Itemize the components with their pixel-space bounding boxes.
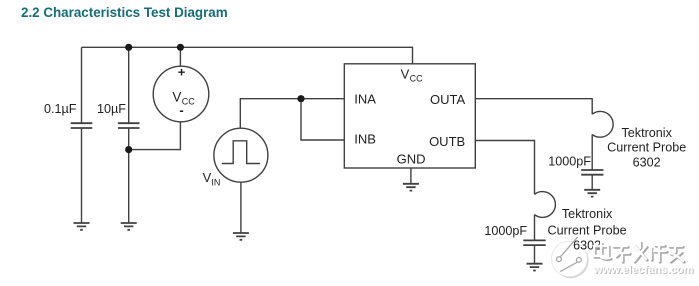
op-amp U1 IC body [344, 64, 475, 168]
capacitor C1 0.1uF plates [71, 123, 93, 128]
label: Tektronix Current Probe 6302 (probe 2) [548, 207, 627, 253]
voltage source VCC circle [153, 66, 209, 122]
ground: under 10uF [121, 223, 137, 230]
svg-text:+: + [178, 64, 186, 79]
ground: under VIN [233, 233, 249, 240]
pulse source VIN circle [214, 128, 268, 182]
wire: VCC source top lead [179, 47, 181, 66]
wire: VIN top lead to INA [240, 99, 344, 129]
svg-text:CC: CC [182, 96, 195, 106]
wire: VIN bottom lead to ground [240, 182, 242, 233]
capacitor C3 1000pF plates (probe 1) [581, 170, 603, 175]
wire: probe 2 to 1000pF cap 2 [534, 215, 536, 241]
svg-text:OUTB: OUTB [429, 134, 465, 149]
svg-text:www.elecfans.com: www.elecfans.com [593, 264, 694, 276]
wire: OUTA to current probe 1 [475, 99, 592, 115]
svg-text:2.2 Characteristics Test Diagr: 2.2 Characteristics Test Diagram [21, 5, 228, 20]
wire: 10uF branch lower through junction to ground [128, 128, 130, 223]
wire: 1000pF cap 1 to ground [591, 175, 593, 190]
wire: probe 1 to 1000pF cap [591, 134, 593, 170]
wire: IC GND pin lead [410, 168, 412, 184]
svg-text:V: V [401, 66, 410, 81]
wire: VCC source bottom lead to 10uF junction [129, 122, 181, 150]
label: Tektronix Current Probe 6302 (probe 1) [607, 126, 686, 169]
wire: 0.1uF branch lower to ground [81, 128, 83, 223]
watermark logo circle [552, 237, 589, 278]
junction dot: INA node [297, 95, 304, 102]
svg-text:0.1µF: 0.1µF [44, 102, 77, 116]
pulse waveform symbol [222, 141, 260, 164]
wire: top VCC rail from left cap to IC VCC pin [82, 47, 413, 64]
svg-text:INB: INB [354, 131, 376, 146]
svg-text:Current Probe: Current Probe [548, 224, 627, 238]
svg-text:IN: IN [211, 178, 220, 188]
svg-text:OUTA: OUTA [430, 92, 465, 107]
svg-text:Tektronix: Tektronix [621, 126, 672, 140]
wire: 1000pF cap 2 to ground [534, 245, 536, 264]
capacitor C4 1000pF plates (probe 2) [523, 240, 545, 245]
svg-text:1000pF: 1000pF [548, 154, 591, 168]
ground: under 0.1uF [74, 223, 90, 230]
watermark text: dianzifashaoyou (embossed glyph strokes) [595, 243, 684, 262]
junction dot: VCC source top rail [177, 44, 184, 51]
svg-text:6302: 6302 [633, 155, 661, 169]
capacitor C2 10uF plates [118, 123, 140, 128]
svg-text:CC: CC [410, 73, 423, 83]
junction dot: 10uF top rail [125, 44, 132, 51]
wire: OUTB to current probe 2 [475, 141, 534, 195]
svg-text:1000pF: 1000pF [484, 224, 527, 238]
svg-text:Tektronix: Tektronix [562, 207, 613, 221]
ground: under 1000pF cap 2 [527, 264, 543, 271]
svg-text:-: - [179, 103, 183, 118]
current probe 2 (Tektronix) arc [535, 192, 556, 218]
ground: under 1000pF cap 1 [584, 190, 600, 197]
current probe 1 (Tektronix) arc [592, 111, 613, 137]
svg-text:INA: INA [354, 92, 376, 107]
wire: INA node drop to INB [301, 99, 344, 140]
junction dot: VCC minus to 10uF [125, 146, 132, 153]
ground: under IC GND [403, 184, 419, 191]
svg-text:Current Probe: Current Probe [607, 141, 686, 155]
svg-text:10µF: 10µF [97, 102, 126, 116]
wire: 10uF branch upper [128, 47, 130, 123]
svg-text:GND: GND [397, 151, 426, 166]
wire: 0.1uF branch upper [81, 47, 83, 123]
svg-text:V: V [203, 170, 212, 185]
